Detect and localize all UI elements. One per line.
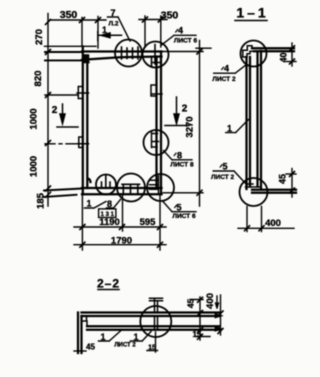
bottom dimension lines 1190 595 1790 (74, 194, 166, 250)
svg-text:5: 5 (176, 203, 181, 213)
svg-text:ЛИСТ 6: ЛИСТ 6 (174, 38, 198, 45)
svg-text:45: 45 (278, 174, 288, 184)
section 1-1 top bend detail (243, 46, 254, 57)
svg-text:595: 595 (140, 217, 157, 228)
svg-text:1000: 1000 (29, 108, 40, 129)
leader item 7 sheet 2 (108, 17, 131, 41)
section 1-1 top flange (252, 48, 294, 51)
left tab joint middle (77, 87, 89, 99)
svg-text:1: 1 (100, 332, 105, 342)
svg-text:2–2: 2–2 (97, 277, 120, 291)
section 2-2 member plates (82, 313, 220, 330)
svg-text:ЛИСТ 8: ЛИСТ 8 (170, 162, 194, 169)
svg-text:2: 2 (52, 105, 58, 116)
svg-text:ЛИСТ 2: ЛИСТ 2 (114, 343, 136, 349)
section 2-2 title underline (98, 289, 119, 291)
right jog joint middle (151, 85, 162, 96)
leader from circle (147, 332, 158, 352)
section 2-2 detail circle (140, 306, 171, 337)
bottom joint mark in detail D (102, 176, 111, 189)
left tab joint lower (77, 137, 88, 148)
dim 45 right of 2-2 (190, 297, 203, 321)
svg-text:185: 185 (36, 192, 47, 209)
dim 40 (286, 43, 296, 66)
svg-text:350: 350 (60, 9, 78, 21)
leader item 5 sheet 6 (163, 202, 196, 212)
svg-text:15: 15 (193, 330, 202, 339)
svg-text:1: 1 (133, 332, 138, 342)
section 2-2 left end plate (78, 313, 82, 354)
leader item 1 bottom (84, 202, 106, 209)
svg-text:8: 8 (177, 151, 182, 161)
detail circle C (144, 130, 169, 155)
dim 45 (286, 169, 296, 198)
leader item 5 sheet 2 (213, 171, 247, 185)
section arrow 2 right (165, 97, 189, 126)
svg-text:ЛИСТ 2: ЛИСТ 2 (211, 174, 235, 181)
detail circle B (143, 42, 169, 68)
leader item 1 second (130, 332, 151, 342)
leader item 8 sheet 8 (164, 151, 193, 160)
svg-text:1: 1 (86, 199, 91, 209)
svg-text:1: 1 (102, 25, 107, 35)
svg-text:1790: 1790 (111, 236, 132, 247)
svg-text:ЛИСТ 2: ЛИСТ 2 (212, 76, 236, 83)
svg-text:1: 1 (227, 124, 232, 134)
svg-text:350: 350 (161, 10, 179, 22)
dim 15 below member (196, 322, 210, 340)
detail circle A (115, 40, 142, 67)
svg-text:270: 270 (34, 29, 45, 45)
svg-text:3270: 3270 (185, 116, 196, 137)
section arrow 2 left (57, 104, 78, 127)
leader item 1 first (99, 331, 122, 342)
detail circle F (147, 174, 174, 201)
section 2-2 left end tick (74, 350, 86, 352)
main view top chord (82, 52, 162, 60)
svg-text:400: 400 (205, 293, 216, 309)
top joint marks in detail A (122, 47, 139, 59)
main view bottom chord (82, 188, 162, 194)
svg-text:45: 45 (86, 343, 95, 352)
left vertical dimension line (44, 14, 96, 207)
dim 400 right of 2-2 (215, 295, 223, 335)
section 1-1 title underline (235, 20, 267, 22)
leader item 4 sheet 2 (214, 65, 247, 74)
main view left chord (83, 47, 91, 195)
svg-text:2: 2 (182, 104, 188, 115)
section 1-1 bottom joint detail (246, 184, 261, 187)
dimension line 350 right (139, 16, 167, 47)
section 2-2 crossing stub (150, 298, 163, 330)
svg-text:45: 45 (186, 299, 196, 309)
svg-text:820: 820 (33, 71, 44, 87)
svg-text:Л.2: Л.2 (109, 21, 119, 28)
right jog joint in detail C (152, 133, 159, 148)
centerline dash-dot (45, 143, 83, 145)
leader item 8 bottom (106, 199, 120, 208)
detail circle D (96, 175, 116, 195)
svg-text:15: 15 (148, 345, 156, 352)
section 1-1 bottom flange (252, 190, 296, 193)
svg-text:1000: 1000 (29, 156, 40, 177)
detail circle E (117, 174, 145, 202)
svg-text:4: 4 (224, 64, 229, 74)
section 1-1 member plates (247, 51, 262, 189)
svg-text:400: 400 (265, 218, 281, 229)
weld spec box (99, 209, 116, 218)
svg-text:40: 40 (279, 52, 289, 62)
svg-text:8: 8 (107, 199, 112, 209)
section 1-1 detail circle bottom (240, 178, 268, 206)
svg-text:7: 7 (110, 8, 115, 18)
bottom joint table in detail E (122, 184, 140, 194)
dimension line 350 left (50, 17, 106, 49)
leader item 1 (226, 120, 249, 133)
svg-text:ЛИСТ 6: ЛИСТ 6 (172, 213, 196, 220)
svg-text:1–1: 1–1 (236, 5, 268, 21)
corner joint marks in detail B (152, 45, 161, 67)
svg-text:4: 4 (178, 26, 183, 36)
main view right chord (157, 52, 162, 195)
leader item 4 sheet 6 (162, 35, 197, 45)
dim 400 bottom of 1-1 (238, 207, 294, 232)
svg-text:5: 5 (222, 162, 227, 172)
left tab joint upper (83, 55, 89, 63)
check ticks before item digits (174, 29, 224, 208)
bottom corner joint in detail F (150, 176, 159, 194)
svg-text:1190: 1190 (99, 217, 120, 228)
right vertical dimension line 3270 (163, 41, 211, 207)
section 1-1 detail circle top (241, 41, 267, 67)
section arrow 1 top (98, 32, 122, 41)
section 2-2 left bend step (82, 316, 88, 326)
